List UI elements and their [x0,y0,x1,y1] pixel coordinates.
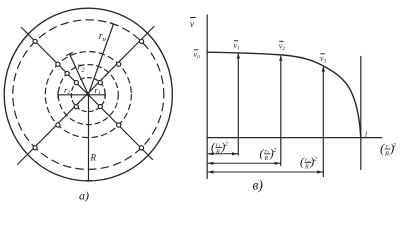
svg-text:2: 2 [393,142,397,149]
measuring point UL r1 [74,81,78,85]
dashed circle r1 [71,78,105,112]
svg-text:R: R [264,156,269,162]
measuring point DL r3 [56,123,60,127]
arrowhead v1 top [237,53,240,59]
measuring point UR r3 [117,62,121,66]
fraction label (r1/R)^2 [211,140,228,156]
dimension row 2 line [207,162,281,164]
dashed circle r3 [45,52,131,138]
svg-text:r2: r2 [78,62,86,74]
tick at end of r2 arrow [67,53,73,56]
svg-text:v0: v0 [194,50,201,61]
measuring point DL r4 [33,146,37,150]
measuring diameter NE-SW [18,27,155,165]
measuring point DR r1 [98,105,102,109]
arrowhead v2 top [279,55,282,61]
measuring point UL r3 [56,62,60,66]
measuring point UL r2 [65,71,69,75]
svg-text:2: 2 [314,157,317,163]
axis label (r/R)^2 [380,141,397,158]
measuring point DL r1 [74,105,78,109]
svg-text:rн: rн [99,31,106,43]
radius arrow r_n upper-right [88,24,113,95]
svg-text:v2: v2 [279,42,286,53]
velocity profile curve [207,52,361,137]
right tick of dimension [104,92,106,98]
measuring diameter NW-SE [22,28,153,160]
ordinate v3 [322,68,324,177]
measuring point DR r3 [117,123,121,127]
ordinate v1 [237,54,239,155]
arrowheads row 1 [207,152,213,155]
fraction label (rn/R)^2 [300,155,317,171]
wall ordinate at (r/R)^2=1 [360,57,362,170]
radius arrow r2 upper-left [70,54,89,95]
arrowheads row 3 [207,170,213,173]
svg-text:а): а) [79,188,89,202]
svg-text:v1: v1 [234,41,240,52]
dashed circle r4 outer [13,20,164,170]
svg-text:2: 2 [225,142,228,148]
x axis (r/R)^2 [207,137,382,139]
horizontal dimension line r2-r1 [58,94,105,96]
arrowhead v3 top [322,66,325,72]
svg-text:v: v [190,19,194,29]
svg-text:r2: r2 [64,85,70,96]
dimension row 1 line [207,153,238,155]
ordinate v2 [280,57,282,166]
svg-text:r1: r1 [95,85,101,96]
dashed circle r2 [58,65,118,125]
svg-text:1: 1 [364,131,368,139]
svg-text:R: R [90,153,97,163]
measuring point UL r4 [33,39,37,43]
measuring point UR r1 [98,81,102,85]
tick at bottom of R [86,180,92,182]
measuring point DR r4 [139,146,143,150]
svg-text:2: 2 [273,148,276,154]
outer pipe wall circle [4,8,172,181]
radius R vertical down [88,95,90,181]
arrowheads row 2 [207,162,213,165]
tick at end of r_n arrow [110,23,117,25]
svg-text:в): в) [253,178,264,193]
svg-text:R: R [384,151,389,158]
measuring point UR r4 [139,39,143,43]
fraction label (r2/R)^2 [260,146,277,162]
svg-text:R: R [304,165,309,171]
dimension row 3 line [207,171,323,173]
left tick of dimension [57,92,59,98]
center node [87,93,90,96]
y axis v [206,15,208,179]
svg-text:v3: v3 [320,54,327,65]
svg-text:R: R [215,150,220,156]
